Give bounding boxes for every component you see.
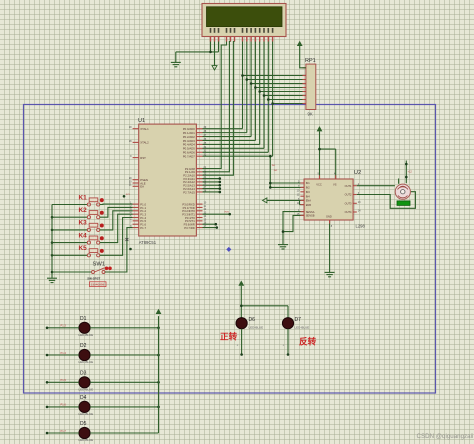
junction VSS — [209, 51, 212, 54]
svg-text:U1: U1 — [138, 118, 145, 124]
wire LCD RW to U1 P2.1 — [203, 42, 231, 172]
resistor pack RP1 — [303, 58, 316, 117]
watermark — [417, 433, 474, 440]
wire D5 left — [47, 429, 79, 433]
svg-text:K2: K2 — [79, 207, 88, 214]
wire bus drop to U2 IN1/IN2 — [269, 156, 271, 187]
svg-text:+12: +12 — [408, 171, 413, 174]
wire U1 P2.6 stub net — [203, 188, 220, 190]
svg-text:P1.7: P1.7 — [61, 429, 67, 433]
motor driver U2 L298 — [297, 170, 366, 229]
junction U2 supply — [318, 148, 321, 151]
svg-text:P1.4: P1.4 — [61, 351, 67, 355]
LED D4 — [79, 395, 94, 416]
svg-text:LED-BLUE: LED-BLUE — [79, 360, 94, 364]
junction bus D4 — [258, 90, 261, 93]
wire K2 to U1 P1.1 — [100, 207, 133, 217]
svg-text:LED-BLUE: LED-BLUE — [79, 333, 94, 337]
svg-text:D1: D1 — [80, 316, 87, 322]
wire power to U2 VCC/VS — [320, 131, 336, 179]
wire D1 right — [90, 327, 158, 329]
junction D7 end — [287, 353, 290, 356]
wire K4 to U1 P1.3 — [100, 214, 133, 242]
svg-text:XTAL1: XTAL1 — [140, 127, 149, 131]
wire LCD D0 / U1 P0.0 bus — [203, 42, 304, 129]
wire D3 right — [90, 381, 158, 383]
svg-text:D4: D4 — [80, 395, 87, 401]
junction bus D1 — [246, 78, 249, 81]
power arrow ENA — [263, 198, 267, 203]
junction bus D3 — [254, 86, 257, 89]
svg-text:LED-BLUE: LED-BLUE — [249, 326, 264, 330]
junction P2.4 — [219, 181, 222, 184]
marker X on SW1 riser — [125, 238, 128, 241]
svg-text:19: 19 — [129, 126, 132, 129]
wire U1 P3.6 stub net — [203, 223, 216, 225]
svg-text:P1.5: P1.5 — [61, 378, 67, 382]
wire U1 P2.3 stub net — [203, 178, 220, 180]
label zhengzhuan — [220, 331, 238, 342]
junction bus D6 — [267, 98, 270, 101]
wire LCD D6 / U1 P0.6 bus — [203, 42, 304, 153]
svg-text:K4: K4 — [79, 232, 88, 239]
svg-text:VS: VS — [333, 183, 337, 187]
svg-text:P3.7/RD: P3.7/RD — [184, 226, 195, 230]
junction K2 bus — [51, 216, 54, 219]
svg-text:K3: K3 — [79, 220, 88, 227]
junction D3 right — [157, 381, 160, 384]
LED D5 — [79, 421, 94, 442]
junction motor supply b — [405, 176, 408, 179]
junction P3.6 — [215, 223, 218, 226]
wire D1 left — [47, 324, 79, 328]
wire D5 right — [90, 432, 158, 434]
junction P2.5 — [219, 184, 222, 187]
wire to U2 IN1 — [270, 182, 304, 184]
svg-text:RP1: RP1 — [305, 58, 316, 64]
svg-text:反转: 反转 — [299, 336, 317, 347]
svg-text:IN2: IN2 — [274, 170, 278, 172]
junction K3 bus — [51, 229, 54, 232]
junction P2.3 — [219, 177, 222, 180]
junction bus drop — [269, 155, 272, 158]
power arrow U2 supply — [317, 127, 322, 131]
svg-text:ENB: ENB — [306, 203, 312, 207]
wire D2 right — [90, 354, 158, 356]
wire U1 P2.4 stub net — [203, 181, 220, 183]
wire key common bus — [51, 205, 53, 279]
wire D4 right — [90, 406, 158, 408]
power arrow RP1 — [297, 42, 302, 46]
svg-text:3V3: 3V3 — [126, 194, 131, 196]
junction D1 left — [46, 327, 49, 330]
svg-text:OUT3: OUT3 — [345, 202, 352, 206]
wire LCD D2 / U1 P0.2 bus — [203, 42, 304, 137]
LED D7 — [282, 317, 309, 330]
wire U2 OUT2 to motor loop — [357, 192, 416, 209]
wire D3 left — [47, 378, 79, 382]
motor M1 — [395, 184, 410, 199]
wire K1 to U1 P1.0 — [100, 203, 133, 205]
pushbutton K2 — [52, 207, 104, 219]
wire K3 to U1 P1.2 — [100, 211, 133, 230]
microcontroller U1 AT89C51 — [129, 118, 207, 245]
wire ENA/ENB — [267, 200, 304, 204]
svg-text:IN3: IN3 — [306, 190, 311, 194]
label motor supply — [408, 171, 413, 174]
svg-text:IN2: IN2 — [306, 186, 311, 190]
svg-text:12: 12 — [297, 194, 300, 197]
svg-text:P0.7/AD7: P0.7/AD7 — [183, 155, 195, 159]
junction P3.3 — [228, 213, 231, 216]
svg-text:IN4: IN4 — [306, 194, 311, 198]
motor value label — [397, 201, 410, 206]
power VDD arrow — [212, 66, 217, 70]
svg-text:LED-BLUE: LED-BLUE — [295, 326, 310, 330]
svg-text:U2: U2 — [354, 170, 361, 176]
svg-text:P2.7/A15: P2.7/A15 — [183, 190, 195, 194]
junction IN1 — [269, 182, 272, 185]
LED D6 — [236, 317, 263, 330]
wire U2 OUT1 to motor — [357, 185, 395, 187]
switch SW1 — [52, 262, 112, 281]
svg-text:9: 9 — [130, 155, 132, 158]
junction SENS — [282, 230, 285, 233]
svg-text:GND: GND — [326, 215, 332, 219]
svg-text:OUT1: OUT1 — [345, 184, 352, 188]
svg-text:正转: 正转 — [220, 331, 238, 342]
junction D6 feed — [240, 305, 243, 308]
svg-text:P1.7: P1.7 — [140, 226, 146, 230]
svg-text:31: 31 — [129, 184, 132, 187]
schematic border frame — [24, 105, 436, 394]
svg-text:13: 13 — [358, 201, 361, 204]
svg-text:OUT4: OUT4 — [345, 210, 352, 214]
svg-text:8: 8 — [331, 225, 333, 228]
wire RP1 common to power — [300, 45, 306, 68]
svg-text:XTAL2: XTAL2 — [140, 141, 149, 145]
junction D1 right — [157, 327, 160, 330]
svg-text:CSDN @qiguangzaii: CSDN @qiguangzaii — [417, 433, 474, 440]
wire D2 left — [47, 351, 79, 355]
svg-text:D7: D7 — [295, 317, 302, 323]
origin marker diamond — [226, 247, 231, 252]
svg-text:SENSA: SENSA — [306, 210, 315, 214]
svg-text:L298: L298 — [356, 224, 366, 229]
svg-text:IN1: IN1 — [306, 181, 311, 185]
LED D3 — [79, 371, 94, 392]
svg-text:23040898: 23040898 — [91, 283, 105, 287]
pushbutton K5 — [52, 245, 104, 257]
wire to U2 IN2 — [270, 186, 304, 188]
junction bus D5 — [263, 94, 266, 97]
wire LCD VDD — [214, 42, 216, 66]
junction bus D7 — [271, 102, 274, 105]
svg-text:AT89C51: AT89C51 — [139, 240, 157, 245]
junction P2.7 — [219, 191, 222, 194]
LCD display LCD1 — [202, 4, 286, 42]
junction D5 left — [46, 432, 49, 435]
wire U1 P3.7 stub net — [203, 227, 217, 229]
LED D1 — [79, 316, 94, 337]
power arrow LED bus — [156, 310, 161, 314]
wire LCD RS to U1 P2.0 — [203, 42, 227, 169]
svg-text:K1: K1 — [79, 194, 88, 201]
ground LCD — [171, 52, 181, 67]
junction SW1 bus — [51, 271, 54, 274]
LED D2 — [79, 343, 94, 364]
wire U2 GND — [329, 220, 331, 272]
junction free net dot — [129, 248, 132, 251]
svg-text:D6: D6 — [249, 317, 256, 323]
svg-text:D2: D2 — [80, 343, 87, 349]
wire SW1 to U1 P1.7 — [105, 228, 133, 272]
svg-text:LED-BLUE: LED-BLUE — [79, 412, 94, 416]
ground SENS — [278, 245, 288, 249]
svg-text:P1.6: P1.6 — [61, 403, 67, 407]
junction bus D0 — [241, 74, 244, 77]
wire D6 down — [237, 329, 242, 355]
wire U1 P2.5 stub net — [203, 184, 220, 186]
wire SENSA/SENSB to ground — [283, 212, 304, 245]
svg-text:+: + — [237, 344, 239, 348]
pushbutton K3 — [52, 220, 104, 232]
svg-text:P1.3: P1.3 — [61, 324, 67, 328]
junction K5 bus — [51, 254, 54, 257]
svg-text:LED-BLUE: LED-BLUE — [79, 388, 94, 392]
wire LCD VSS/VEE to ground — [176, 42, 219, 52]
wire LCD D5 / U1 P0.5 bus — [203, 42, 304, 149]
svg-text:EA: EA — [140, 185, 144, 189]
junction bus D2 — [250, 82, 253, 85]
svg-text:RST: RST — [140, 156, 146, 160]
svg-text:VCC: VCC — [316, 183, 322, 187]
wire D4 left — [47, 403, 79, 407]
wire LED bus — [158, 316, 160, 433]
svg-text:OUT2: OUT2 — [345, 193, 352, 197]
svg-text:SW-SPST: SW-SPST — [87, 276, 100, 280]
pushbutton K4 — [52, 232, 104, 244]
label fanzhuan — [299, 336, 317, 347]
wire D7 down — [283, 329, 289, 355]
wire LCD E to U1 P2.2 — [203, 42, 235, 176]
junction P3.7 — [216, 226, 219, 229]
wire LCD D7 / U1 P0.7 bus — [203, 42, 304, 157]
svg-text:14: 14 — [358, 210, 361, 213]
junction K4 bus — [51, 241, 54, 244]
junction D2 left — [46, 354, 49, 357]
junction P2.6 — [219, 187, 222, 190]
junction motor supply a — [405, 163, 408, 166]
junction IN2 — [269, 186, 272, 189]
svg-text:18: 18 — [129, 140, 132, 143]
junction D6 end — [240, 353, 243, 356]
net flag 3V3 — [123, 194, 131, 197]
svg-text:LED-BLUE: LED-BLUE — [79, 438, 94, 442]
power arrow D6 D7 — [239, 281, 244, 285]
svg-text:10: 10 — [297, 189, 300, 192]
junction D2 right — [157, 354, 160, 357]
svg-text:SENSB: SENSB — [306, 214, 315, 218]
svg-text:+: + — [283, 344, 285, 348]
wire U1 P3.3 stub net — [203, 212, 231, 215]
wire LCD D3 / U1 P0.3 bus — [203, 42, 304, 141]
net labels IN1 IN2 — [272, 165, 278, 172]
svg-text:ENA: ENA — [306, 199, 312, 203]
ground keys — [47, 278, 57, 282]
ground U2 — [325, 272, 335, 276]
svg-text:9K: 9K — [308, 112, 313, 117]
wire motor supply — [399, 161, 407, 184]
svg-text:D5: D5 — [80, 421, 87, 427]
junction D3 left — [46, 381, 49, 384]
wire K5 to U1 P1.4 — [100, 218, 133, 256]
junction D4 right — [157, 406, 160, 409]
label red box 23040898 — [90, 282, 107, 287]
wire LCD D4 / U1 P0.4 bus — [203, 42, 304, 145]
junction D4 left — [46, 406, 49, 409]
wire U1 P2.7 stub net — [203, 191, 220, 193]
wire power to D6 D7 — [241, 286, 288, 318]
svg-text:K5: K5 — [79, 245, 88, 252]
svg-text:SW1: SW1 — [93, 262, 106, 268]
wire LCD D1 / U1 P0.1 bus — [203, 42, 304, 133]
svg-text:IN1: IN1 — [272, 165, 276, 167]
svg-text:D3: D3 — [80, 371, 87, 377]
pushbutton K1 — [52, 194, 104, 206]
